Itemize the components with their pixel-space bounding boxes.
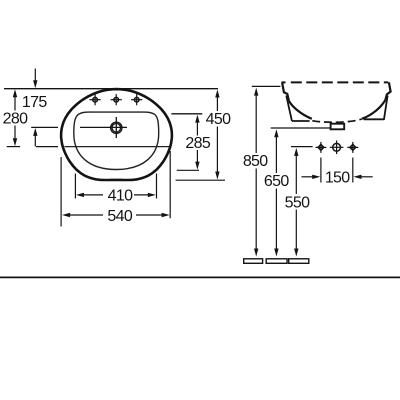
dimension 410 line [76, 193, 156, 197]
850 top reference line [252, 85, 281, 87]
dashed rim line (front view) [282, 81, 286, 83]
foot block 2 [266, 259, 287, 264]
svg-text:540: 540 [107, 208, 132, 225]
tap hole left (plan) [90, 94, 101, 105]
svg-text:175: 175 [22, 94, 47, 111]
foot block 3 [289, 259, 309, 264]
dimension 550 line and arrows [294, 148, 298, 257]
540 left extension line [60, 157, 62, 227]
drain trap rectangle (front view) [331, 124, 345, 130]
front view left bowl curve [289, 101, 312, 119]
front view right bowl curve [362, 100, 385, 119]
front view right rim profile [385, 82, 390, 100]
tap hole middle (plan) [111, 94, 122, 105]
bowl chord line (plan view) [65, 146, 170, 148]
svg-text:280: 280 [3, 111, 28, 128]
front view right outer wall [384, 96, 388, 120]
drain / overflow symbol (plan) [111, 117, 122, 138]
outer basin outline (plan view) [61, 89, 172, 180]
150 left extension line [320, 158, 322, 183]
floor line [0, 276, 400, 278]
dimension 280 line and arrows [13, 89, 17, 146]
dimension 175 lower arrow [33, 128, 37, 146]
wall fitting hole left (front view) [315, 142, 326, 153]
svg-text:650: 650 [264, 173, 289, 190]
extension line at drain level, left of basin [31, 126, 58, 128]
285 bottom reference line [177, 169, 199, 171]
wall fitting hole middle (front view) [330, 141, 344, 155]
dimension 450 line and arrows [215, 90, 219, 180]
svg-text:150: 150 [325, 170, 350, 187]
svg-text:410: 410 [108, 188, 133, 205]
front view left rim profile [282, 82, 289, 101]
tap row reference line (front view) [291, 146, 313, 148]
front view left outer wall [286, 96, 292, 121]
rim top reference line (plan view) [4, 88, 218, 90]
dimension 285 line and arrows [195, 115, 199, 170]
dashed bowl bottom (front view) [312, 119, 362, 122]
inner-top reference line (right of plan) [171, 113, 202, 115]
front view left foot line [292, 120, 310, 122]
svg-text:550: 550 [285, 194, 310, 211]
dimension 650 line and arrows [274, 129, 278, 256]
svg-text:285: 285 [185, 135, 210, 152]
410 right extension line [156, 174, 158, 199]
front view right foot line [364, 118, 384, 120]
410 left extension line [74, 174, 76, 199]
dimension 540 line [62, 213, 170, 217]
150 right extension line [352, 158, 354, 183]
wall fitting hole right (front view) [347, 142, 358, 153]
foot block 1 [244, 259, 263, 264]
dimension 175 upper arrow [33, 69, 37, 89]
svg-text:850: 850 [243, 153, 268, 170]
540 right extension line [169, 151, 171, 218]
tap hole right (plan) [131, 94, 142, 105]
extension line at drain level, inside basin [80, 126, 127, 128]
280 bottom tick [7, 146, 21, 148]
inner basin outline (plan view) [74, 112, 159, 169]
dimension 150 arrows [302, 175, 373, 179]
450 bottom reference line [176, 179, 225, 181]
lower reference line left of basin [36, 146, 58, 148]
basin underside reference line [271, 127, 331, 129]
dimension 850 line and arrows [254, 88, 258, 257]
svg-text:450: 450 [206, 111, 231, 128]
